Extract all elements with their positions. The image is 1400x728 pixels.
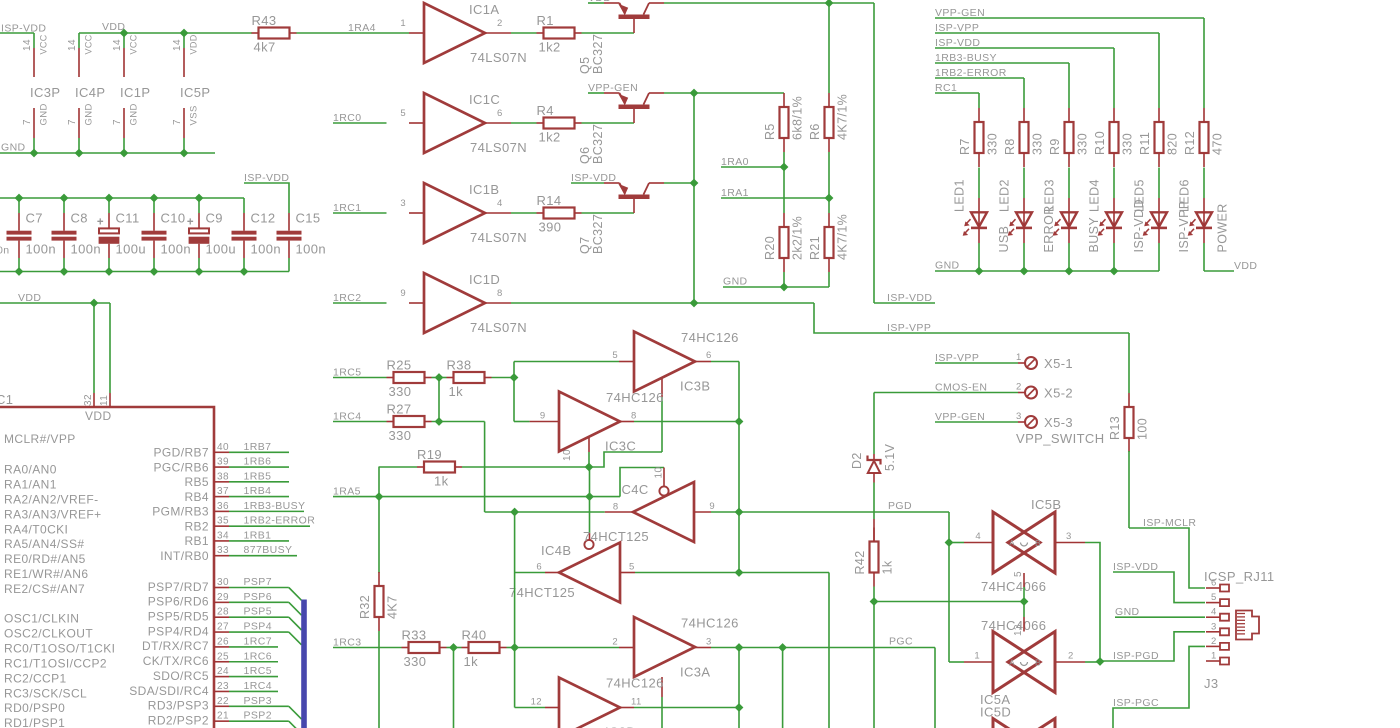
svg-text:ISP-VPP: ISP-VPP [887,322,931,334]
svg-text:LED6: LED6 [1178,179,1192,212]
svg-text:1RB5: 1RB5 [244,470,272,482]
svg-text:SDA/SDI/RC4: SDA/SDI/RC4 [129,684,209,698]
svg-text:RD1/PSP1: RD1/PSP1 [4,716,65,728]
svg-text:100: 100 [1136,418,1150,440]
svg-text:GND: GND [84,103,95,125]
svg-text:23: 23 [217,681,229,692]
svg-text:5: 5 [1211,592,1217,603]
svg-text:RE1/WR#/AN6: RE1/WR#/AN6 [4,567,88,581]
svg-text:1RB2-ERROR: 1RB2-ERROR [244,515,316,527]
svg-text:6k8/1%: 6k8/1% [791,96,805,140]
svg-text:1k: 1k [881,560,895,574]
svg-text:3: 3 [1211,621,1217,632]
svg-text:13: 13 [1013,624,1024,636]
svg-text:PSP4/RD4: PSP4/RD4 [148,624,209,638]
svg-text:330: 330 [404,654,427,669]
svg-text:GND: GND [129,103,140,125]
svg-text:IC3P: IC3P [30,85,61,100]
svg-text:1RB3-BUSY: 1RB3-BUSY [244,500,306,512]
svg-text:SDO/RC5: SDO/RC5 [153,669,209,683]
svg-text:RA2/AN2/VREF-: RA2/AN2/VREF- [4,492,99,506]
svg-text:ISP-MCLR: ISP-MCLR [1143,517,1196,529]
svg-text:330: 330 [1031,133,1045,155]
svg-text:RC2/CCP1: RC2/CCP1 [4,671,67,685]
svg-text:POWER: POWER [1216,203,1230,252]
svg-text:Q7: Q7 [578,237,592,254]
svg-text:74HCT125: 74HCT125 [583,529,649,544]
svg-text:RC1/T1OSI/CCP2: RC1/T1OSI/CCP2 [4,656,107,670]
svg-text:RD3/PSP3: RD3/PSP3 [148,699,209,713]
svg-text:LED4: LED4 [1088,179,1102,212]
svg-text:R5: R5 [763,123,777,140]
svg-text:ICSP_RJ11: ICSP_RJ11 [1204,569,1275,584]
svg-text:38: 38 [217,471,229,482]
svg-text:GND: GND [723,276,748,288]
svg-text:RC0/T1OSO/T1CKI: RC0/T1OSO/T1CKI [4,642,115,656]
svg-text:PSP7/RD7: PSP7/RD7 [148,580,209,594]
svg-text:VCC: VCC [129,34,139,54]
svg-text:28: 28 [217,607,229,618]
svg-text:RE0/RD#/AN5: RE0/RD#/AN5 [4,552,86,566]
svg-text:B: B [1035,538,1041,548]
svg-text:VCC: VCC [84,34,94,54]
svg-text:29: 29 [217,592,229,603]
svg-text:C12: C12 [251,211,276,226]
svg-text:74HC126: 74HC126 [606,676,664,691]
svg-text:5: 5 [1013,571,1024,577]
svg-text:IC5P: IC5P [180,85,211,100]
svg-text:R42: R42 [853,550,867,574]
svg-text:R33: R33 [402,628,427,643]
svg-text:IC3A: IC3A [680,665,711,680]
svg-text:35: 35 [217,516,229,527]
svg-text:7: 7 [172,119,183,125]
svg-text:RD0/PSP0: RD0/PSP0 [4,701,65,715]
svg-text:11: 11 [99,395,110,406]
svg-text:J3: J3 [1204,676,1219,691]
svg-text:2: 2 [1016,382,1022,393]
svg-text:100n: 100n [71,242,102,257]
svg-text:PSP3: PSP3 [244,695,272,707]
svg-text:4K7/1%: 4K7/1% [836,214,850,260]
svg-text:VSS: VSS [189,105,200,125]
svg-text:PSP2: PSP2 [244,710,272,722]
svg-text:470: 470 [1211,133,1225,155]
svg-text:74HCT125: 74HCT125 [509,585,575,600]
svg-text:3: 3 [400,198,406,209]
svg-text:R38: R38 [447,358,472,373]
svg-text:74LS07N: 74LS07N [470,140,527,155]
svg-text:8: 8 [497,288,503,299]
svg-text:8: 8 [631,410,637,421]
svg-text:74HC126: 74HC126 [681,616,739,631]
svg-text:36: 36 [217,501,229,512]
svg-text:1RB7: 1RB7 [244,441,272,453]
svg-text:1k: 1k [449,384,464,399]
svg-text:D2: D2 [850,452,864,469]
svg-text:C15: C15 [296,211,321,226]
svg-text:330: 330 [389,428,412,443]
svg-text:IC4B: IC4B [541,543,572,558]
svg-text:3: 3 [1016,411,1022,422]
svg-text:IC3B: IC3B [680,379,711,394]
svg-text:RB5: RB5 [184,475,209,489]
svg-text:RB2: RB2 [184,519,209,533]
svg-text:GND: GND [935,260,960,272]
svg-text:R21: R21 [808,236,822,260]
svg-text:26: 26 [217,636,229,647]
svg-text:RA1/AN1: RA1/AN1 [4,478,57,492]
svg-text:BC327: BC327 [591,124,605,164]
svg-text:R11: R11 [1138,132,1152,155]
svg-text:VDD: VDD [85,409,112,423]
svg-text:27: 27 [217,622,229,633]
svg-text:6: 6 [706,350,712,361]
svg-text:PSP4: PSP4 [244,621,272,633]
svg-text:34: 34 [217,530,229,541]
svg-text:R10: R10 [1093,131,1107,155]
svg-text:PSP6/RD6: PSP6/RD6 [148,595,209,609]
svg-text:5: 5 [400,108,406,119]
svg-text:1RB1: 1RB1 [244,529,272,541]
svg-text:R9: R9 [1048,138,1062,155]
svg-text:1k: 1k [434,474,449,489]
svg-text:1RB4: 1RB4 [244,485,272,497]
svg-text:C8: C8 [71,211,88,226]
svg-text:C10: C10 [161,211,186,226]
svg-text:LED5: LED5 [1133,179,1147,212]
svg-text:74LS07N: 74LS07N [470,320,527,335]
svg-text:2: 2 [497,18,503,29]
svg-text:820: 820 [1166,133,1180,155]
svg-text:RE2/CS#/AN7: RE2/CS#/AN7 [4,582,85,596]
svg-text:3: 3 [706,636,712,647]
svg-text:7: 7 [22,119,33,125]
svg-text:R19: R19 [417,447,442,462]
svg-text:VDD: VDD [189,34,199,54]
svg-text:A: A [1009,538,1015,548]
svg-text:IC4P: IC4P [75,85,106,100]
svg-text:R7: R7 [958,138,972,155]
svg-text:DT/RX/RC7: DT/RX/RC7 [142,639,209,653]
svg-text:IC1: IC1 [0,392,13,407]
svg-text:3: 3 [1066,531,1072,542]
svg-text:IC1B: IC1B [469,182,500,197]
svg-text:1RA4: 1RA4 [348,22,376,34]
svg-text:4k7: 4k7 [254,40,276,55]
svg-text:IC1P: IC1P [120,85,151,100]
svg-text:7: 7 [112,119,123,125]
svg-text:R14: R14 [537,193,562,208]
svg-text:330: 330 [986,133,1000,155]
svg-text:Q5: Q5 [578,57,592,74]
svg-text:100u: 100u [206,242,237,257]
svg-text:B: B [1035,658,1041,668]
svg-text:1RC2: 1RC2 [333,292,361,304]
svg-text:Q6: Q6 [578,147,592,164]
svg-text:PGC: PGC [889,636,913,648]
svg-text:PGD: PGD [888,500,912,512]
svg-text:RD2/PSP2: RD2/PSP2 [148,713,209,727]
svg-text:40: 40 [217,442,229,453]
svg-text:390: 390 [539,220,562,235]
svg-text:R1: R1 [537,13,554,28]
svg-text:R32: R32 [358,595,372,619]
svg-text:R4: R4 [537,103,554,118]
svg-text:IC1D: IC1D [469,272,500,287]
svg-text:GND: GND [39,103,50,125]
svg-text:4K7: 4K7 [386,596,400,619]
svg-text:74HC126: 74HC126 [606,390,664,405]
svg-text:IC3C: IC3C [605,439,636,454]
svg-text:ISP-VDD: ISP-VDD [887,292,932,304]
svg-text:PSP5: PSP5 [244,606,272,618]
svg-text:22: 22 [217,696,229,707]
svg-text:5.1V: 5.1V [883,443,897,471]
svg-text:RC3/SCK/SCL: RC3/SCK/SCL [4,686,87,700]
svg-text:VDD: VDD [1234,260,1257,272]
svg-text:OSC1/CLKIN: OSC1/CLKIN [4,612,79,626]
svg-text:IC1A: IC1A [469,2,500,17]
svg-text:1: 1 [1211,651,1217,662]
svg-text:IC5B: IC5B [1031,497,1062,512]
svg-text:37: 37 [217,486,229,497]
svg-text:IC5D: IC5D [980,705,1011,720]
svg-text:2: 2 [1068,651,1074,662]
svg-text:INT/RB0: INT/RB0 [160,549,209,563]
svg-text:1k2: 1k2 [539,40,561,55]
svg-text:R20: R20 [763,236,777,260]
svg-text:11: 11 [631,696,642,707]
svg-text:GND: GND [1,142,26,154]
svg-text:C11: C11 [116,211,140,226]
svg-text:+: + [97,217,104,229]
svg-text:R27: R27 [387,402,412,417]
svg-text:VCC: VCC [39,34,49,54]
svg-text:RA4/T0CKI: RA4/T0CKI [4,522,68,536]
svg-text:1RC0: 1RC0 [333,112,361,124]
svg-text:GND: GND [1115,606,1140,618]
svg-text:6: 6 [497,108,503,119]
svg-text:2: 2 [1211,636,1217,647]
svg-text:14: 14 [112,39,123,51]
svg-text:74HC4066: 74HC4066 [981,579,1046,594]
svg-text:74HC126: 74HC126 [681,330,739,345]
svg-text:PSP6: PSP6 [244,591,272,603]
svg-text:100u: 100u [116,242,147,257]
svg-text:IC1C: IC1C [469,92,500,107]
svg-text:C9: C9 [206,211,223,226]
svg-text:14: 14 [67,39,78,51]
svg-text:RB1: RB1 [184,534,209,548]
svg-text:1RC5: 1RC5 [244,665,272,677]
svg-text:PGD/RB7: PGD/RB7 [154,446,209,460]
svg-text:R8: R8 [1003,138,1017,155]
svg-text:PGM/RB3: PGM/RB3 [152,505,209,519]
svg-text:14: 14 [22,39,33,51]
svg-text:RB4: RB4 [184,490,209,504]
svg-text:100n: 100n [26,242,57,257]
svg-text:10: 10 [562,449,573,461]
svg-text:5: 5 [629,561,635,572]
svg-text:1: 1 [400,18,406,29]
svg-text:CK/TX/RC6: CK/TX/RC6 [143,654,209,668]
svg-text:74LS07N: 74LS07N [470,230,527,245]
svg-text:100n: 100n [296,242,327,257]
svg-text:R43: R43 [252,13,277,28]
svg-text:5: 5 [612,350,618,361]
svg-text:1RB6: 1RB6 [244,456,272,468]
svg-text:14: 14 [172,39,183,51]
svg-text:LED2: LED2 [998,179,1012,212]
svg-text:MCLR#/VPP: MCLR#/VPP [4,432,76,446]
svg-text:100n: 100n [0,245,9,257]
svg-text:R12: R12 [1183,131,1197,155]
svg-text:LED1: LED1 [953,179,967,212]
svg-text:1RC7: 1RC7 [244,635,272,647]
svg-text:74LS07N: 74LS07N [470,50,527,65]
svg-text:R13: R13 [1108,416,1122,440]
svg-text:1: 1 [974,651,980,662]
svg-text:+: + [187,217,194,229]
svg-text:1RC4: 1RC4 [244,680,272,692]
svg-text:330: 330 [389,384,412,399]
svg-text:2: 2 [612,636,618,647]
svg-text:PGC/RB6: PGC/RB6 [154,460,209,474]
svg-text:4K7/1%: 4K7/1% [836,94,850,140]
svg-text:1k2: 1k2 [539,130,561,145]
svg-text:1k: 1k [464,654,479,669]
svg-text:330: 330 [1121,133,1135,155]
svg-text:4: 4 [497,198,503,209]
svg-text:IC3D: IC3D [605,725,636,728]
svg-text:X5-1: X5-1 [1044,356,1073,371]
svg-text:1RC6: 1RC6 [244,650,272,662]
svg-text:24: 24 [217,666,229,677]
svg-text:7: 7 [67,119,78,125]
svg-text:32: 32 [83,394,94,406]
svg-text:33: 33 [217,545,229,556]
svg-text:USB: USB [997,226,1011,253]
svg-text:A: A [1009,658,1015,668]
svg-text:1: 1 [1016,352,1022,363]
svg-text:BC327: BC327 [591,34,605,74]
svg-text:LED3: LED3 [1043,179,1057,212]
svg-text:R6: R6 [808,123,822,140]
svg-text:OSC2/CLKOUT: OSC2/CLKOUT [4,627,93,641]
svg-text:100n: 100n [161,242,192,257]
svg-text:PSP7: PSP7 [244,576,272,588]
svg-text:25: 25 [217,651,229,662]
svg-text:R40: R40 [462,628,487,643]
svg-text:4: 4 [975,531,981,542]
svg-text:RA3/AN3/VREF+: RA3/AN3/VREF+ [4,507,102,521]
svg-text:9: 9 [540,410,546,421]
svg-text:21: 21 [217,711,229,722]
svg-text:6: 6 [536,561,542,572]
svg-text:8: 8 [613,502,619,513]
svg-text:C7: C7 [26,211,43,226]
svg-text:9: 9 [709,501,715,512]
svg-text:877BUSY: 877BUSY [244,544,293,556]
svg-text:10: 10 [654,467,665,479]
svg-text:X5-2: X5-2 [1044,386,1073,401]
svg-text:12: 12 [531,696,542,707]
svg-text:9: 9 [400,288,406,299]
svg-text:4: 4 [1211,607,1217,618]
svg-text:X5-3: X5-3 [1044,415,1073,430]
svg-text:2k2/1%: 2k2/1% [791,216,805,260]
svg-text:RA0/AN0: RA0/AN0 [4,463,57,477]
svg-text:RA5/AN4/SS#: RA5/AN4/SS# [4,537,84,551]
svg-text:39: 39 [217,457,229,468]
svg-text:BC327: BC327 [591,214,605,254]
svg-text:R25: R25 [387,358,412,373]
svg-text:100n: 100n [251,242,282,257]
svg-text:VPP_SWITCH: VPP_SWITCH [1016,431,1105,446]
svg-text:30: 30 [217,577,229,588]
svg-text:330: 330 [1076,133,1090,155]
svg-text:PSP5/RD5: PSP5/RD5 [148,610,209,624]
svg-text:C4C: C4C [622,482,649,497]
svg-text:1RC1: 1RC1 [333,202,361,214]
